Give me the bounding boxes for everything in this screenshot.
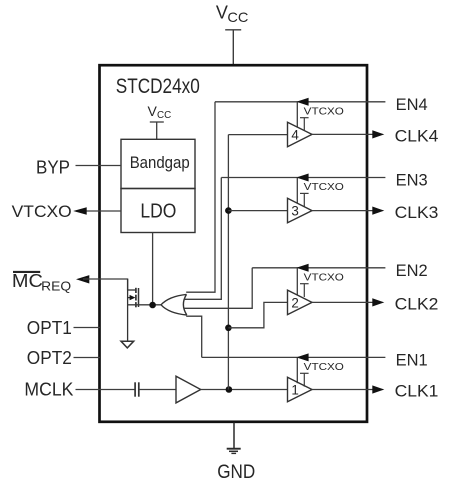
- svg-text:EN1: EN1: [396, 351, 428, 370]
- svg-text:Bandgap: Bandgap: [130, 154, 190, 172]
- buffer A1 (input buffer): [176, 376, 201, 403]
- svg-text:OPT1: OPT1: [27, 318, 72, 338]
- ground (open triangle): [121, 341, 134, 348]
- svg-text:CC: CC: [227, 9, 248, 25]
- wire VTCXO output with arrow: [76, 210, 121, 212]
- block LDO: [121, 189, 195, 233]
- svg-text:VTCXO: VTCXO: [304, 181, 344, 193]
- pin label MCREQ (overline MC): [13, 271, 40, 273]
- wire clock branch to buffer 4: [228, 134, 287, 136]
- transistor Q1 (open-drain MOSFET): [128, 279, 139, 341]
- svg-text:CLK3: CLK3: [395, 203, 439, 222]
- svg-text:VTCXO: VTCXO: [304, 106, 344, 118]
- svg-text:BYP: BYP: [36, 157, 70, 178]
- svg-text:VTCXO: VTCXO: [304, 361, 344, 373]
- svg-text:CLK2: CLK2: [395, 295, 439, 314]
- svg-text:1: 1: [291, 382, 298, 397]
- svg-text:VTCXO: VTCXO: [304, 272, 344, 284]
- or-gate G1 (4-input, output left): [161, 294, 187, 315]
- tri-state buffer 4: [288, 122, 313, 147]
- power net VCC (top): [225, 30, 241, 64]
- svg-text:MCLK: MCLK: [24, 379, 74, 400]
- tri-state buffer 1: [288, 377, 313, 402]
- tri-state buffer 3: [288, 198, 313, 223]
- node clock junction J1: [226, 386, 233, 393]
- wire EN2: [252, 267, 385, 269]
- svg-text:3: 3: [291, 204, 298, 219]
- node OR output junction: [149, 302, 156, 309]
- wire OR input 3 from EN2: [184, 268, 252, 309]
- wire CLK4 output: [312, 133, 374, 135]
- node junction J3: [225, 207, 232, 214]
- block Bandgap: [121, 139, 195, 188]
- arrow CLK2: [372, 298, 384, 306]
- svg-text:OPT2: OPT2: [27, 348, 72, 368]
- svg-text:STCD24x0: STCD24x0: [116, 75, 200, 98]
- arrow CLK4: [372, 130, 384, 138]
- wire OR input 1 from EN4: [186, 102, 215, 292]
- wire clock trunk vertical: [227, 135, 229, 390]
- arrow EN1: [296, 353, 308, 361]
- svg-text:GND: GND: [217, 462, 255, 483]
- svg-text:EN4: EN4: [396, 95, 428, 114]
- wire BYP: [76, 165, 122, 167]
- wire EN1: [202, 356, 386, 358]
- svg-text:MC: MC: [12, 270, 43, 291]
- power net VCC (internal, above Bandgap): [150, 122, 164, 139]
- wire EN3: [221, 177, 385, 179]
- wire clock branch to buffer 3: [228, 210, 287, 212]
- arrow EN2: [296, 264, 308, 272]
- wire clock branch to buffer 2 (jog): [228, 302, 287, 327]
- wire EN2 enable drop: [296, 268, 298, 296]
- chip outline box U1 STCD24x0: [100, 65, 368, 422]
- svg-text:CC: CC: [157, 110, 171, 121]
- wire buffer output to clock node: [201, 389, 288, 391]
- wire MCLK input: [76, 389, 135, 391]
- svg-text:V: V: [148, 103, 158, 119]
- wire EN1 enable drop: [296, 357, 298, 383]
- arrow CLK3: [372, 207, 384, 215]
- arrow EN3: [296, 174, 308, 182]
- wire EN4: [215, 101, 385, 103]
- wire MCREQ with arrow: [76, 275, 89, 283]
- wire OR input 4 from EN1: [186, 316, 202, 357]
- capacitor C1: [135, 382, 139, 396]
- tri-state buffer 2: [288, 290, 313, 315]
- svg-text:4: 4: [291, 127, 299, 142]
- wire CLK1 output: [312, 389, 374, 391]
- wire OPT2 stub: [74, 357, 101, 359]
- wire OPT1 stub: [74, 327, 101, 329]
- arrow CLK1: [372, 385, 384, 393]
- svg-text:CLK1: CLK1: [395, 382, 439, 401]
- svg-text:2: 2: [291, 295, 298, 310]
- wire EN3 enable drop: [296, 178, 298, 204]
- svg-text:EN2: EN2: [396, 261, 428, 280]
- wire EN4 enable drop: [296, 102, 298, 128]
- svg-text:EN3: EN3: [396, 171, 428, 190]
- svg-text:REQ: REQ: [41, 278, 71, 293]
- wire LDO output down to node: [152, 233, 154, 306]
- wire CLK2 output: [312, 301, 374, 303]
- wire cap to input buffer: [139, 389, 176, 391]
- arrow EN4 (input direction): [296, 98, 308, 106]
- svg-text:VTCXO: VTCXO: [12, 202, 72, 221]
- svg-text:CLK4: CLK4: [395, 127, 439, 146]
- ground GND (bottom): [227, 423, 241, 454]
- wire CLK3 output: [312, 210, 374, 212]
- wire OR input 2 from EN3: [184, 178, 221, 300]
- wire gate/source to node: [128, 304, 161, 306]
- svg-text:V: V: [216, 2, 228, 22]
- node junction J2: [225, 325, 232, 332]
- svg-text:LDO: LDO: [140, 201, 176, 223]
